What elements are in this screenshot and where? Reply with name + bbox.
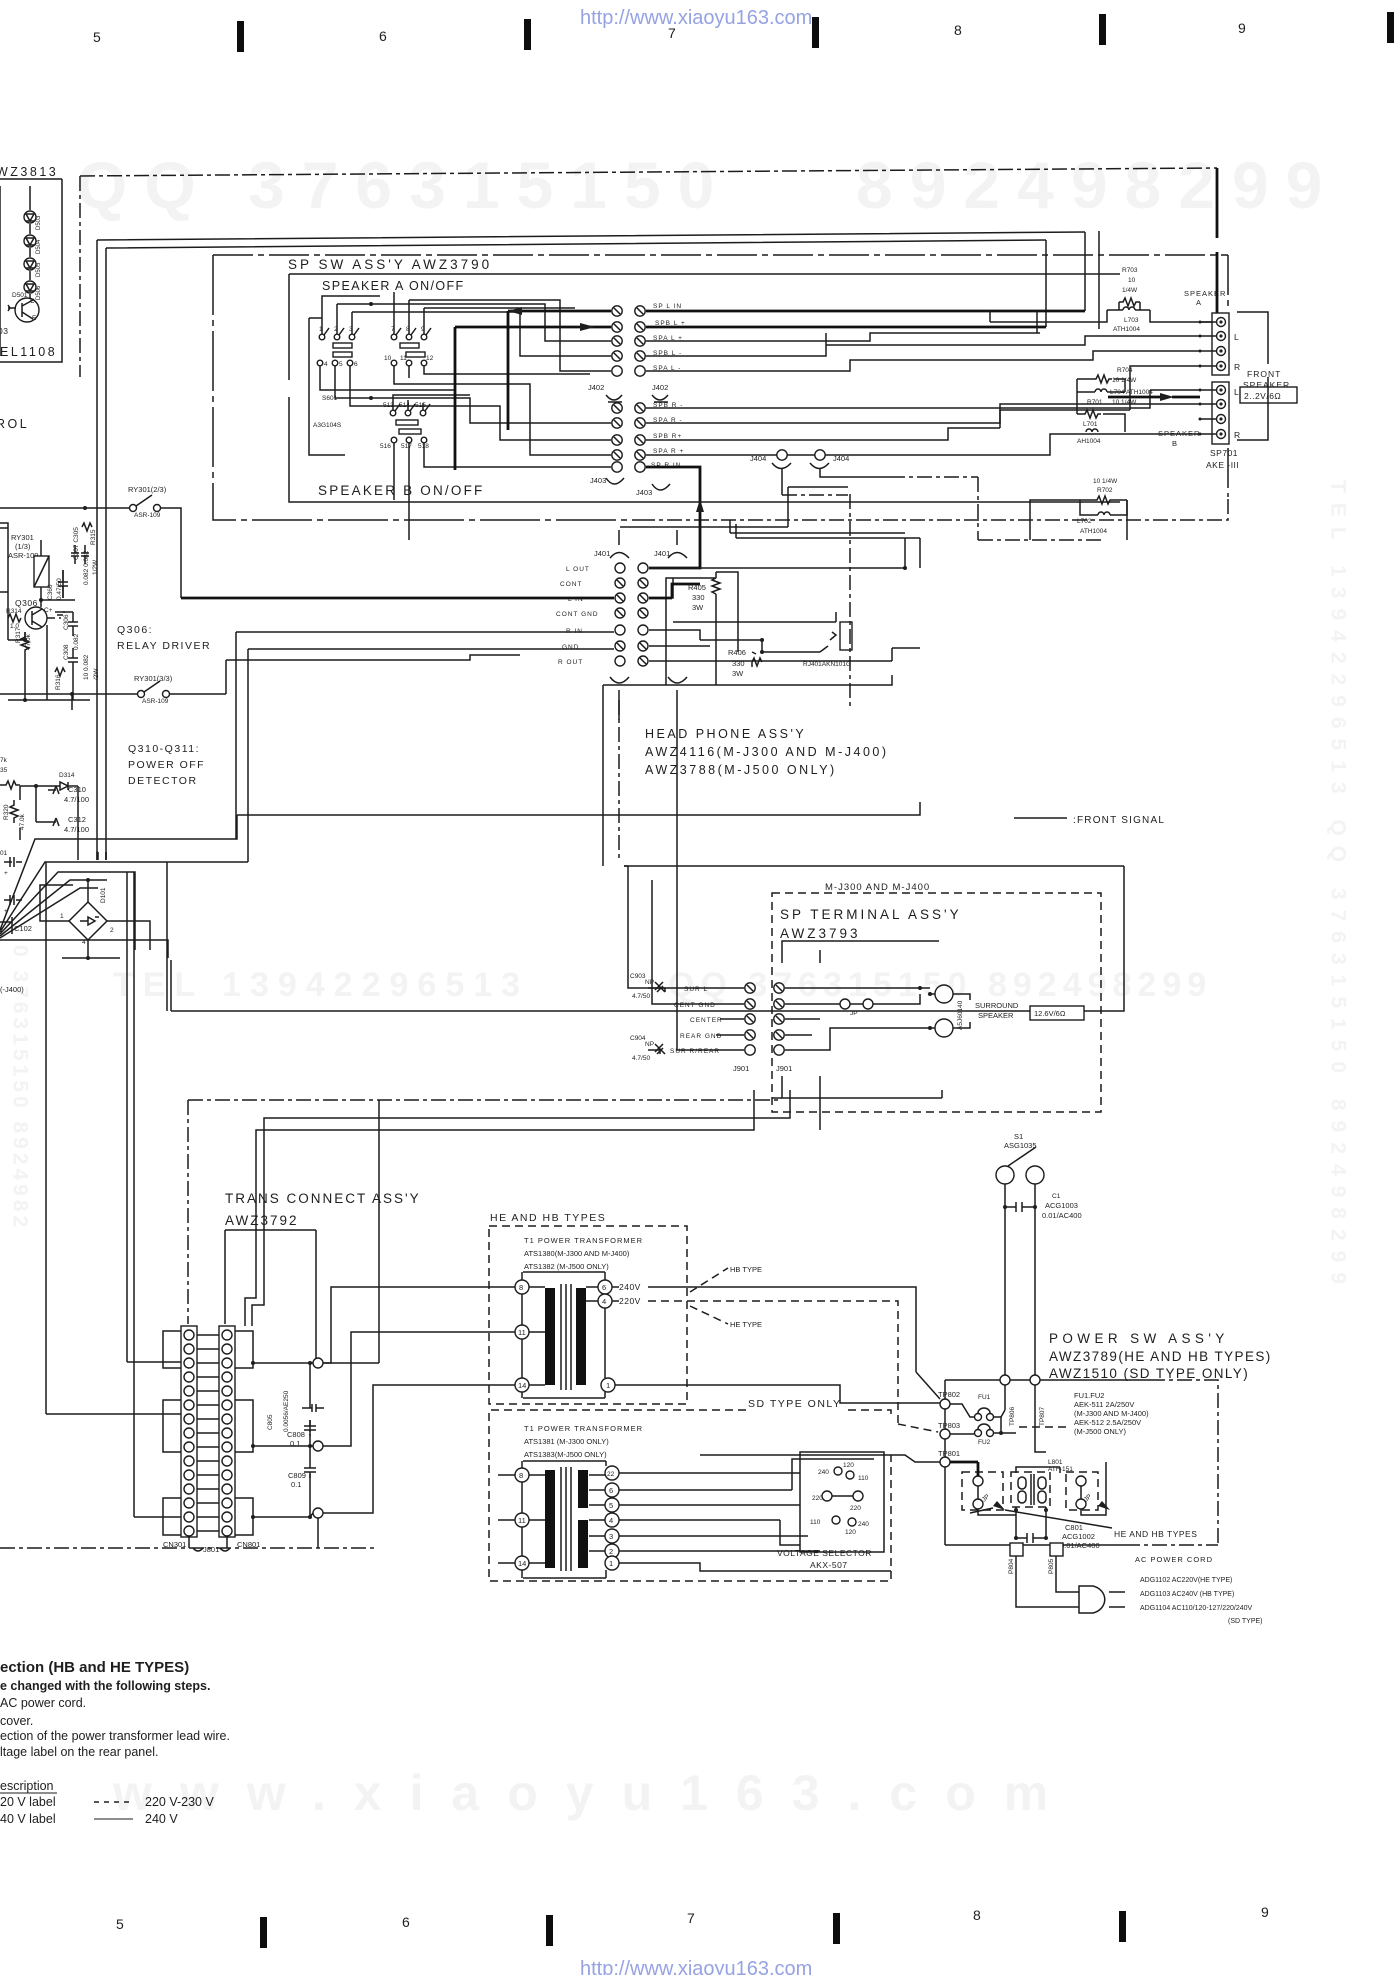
wire rail upper xyxy=(97,232,1085,860)
svg-text:http://www.xiaoyu163.com: http://www.xiaoyu163.com xyxy=(580,1958,812,1975)
svg-text:/2W: /2W xyxy=(93,668,100,680)
svg-text:1: 1 xyxy=(606,1381,610,1390)
svg-text:6: 6 xyxy=(402,1914,410,1930)
svg-text:330: 330 xyxy=(692,593,705,602)
svg-text:11: 11 xyxy=(518,1516,526,1525)
svg-text:AWZ1510 (SD TYPE ONLY): AWZ1510 (SD TYPE ONLY) xyxy=(1049,1366,1249,1381)
AC POWER CORD labels xyxy=(1135,1555,1263,1625)
wire speaker A terminal feed xyxy=(1216,168,1219,313)
svg-text:892498299: 892498299 xyxy=(856,148,1339,222)
svg-text:AWZ3788(M-J500 ONLY): AWZ3788(M-J500 ONLY) xyxy=(645,763,837,777)
svg-text:RY301(3/3): RY301(3/3) xyxy=(134,674,173,683)
LED D504 xyxy=(24,235,36,247)
arrows on JP path xyxy=(993,1501,1005,1510)
svg-text:R IN: R IN xyxy=(566,628,583,635)
svg-text:A3G104S: A3G104S xyxy=(313,422,342,429)
wire SPA R - xyxy=(646,410,1130,423)
svg-text:T1 POWER TRANSFORMER: T1 POWER TRANSFORMER xyxy=(524,1424,643,1433)
assembly bracket lines xyxy=(225,1230,316,1360)
svg-text:S1: S1 xyxy=(1014,1132,1023,1141)
wire LED chain xyxy=(29,186,31,299)
svg-text:ATS1382 (M-J500 ONLY): ATS1382 (M-J500 ONLY) xyxy=(524,1262,609,1271)
svg-text:C+: C+ xyxy=(44,607,53,614)
transistor Q306 xyxy=(6,598,65,630)
wire J403 side run xyxy=(620,487,848,527)
display board outline box xyxy=(0,179,62,362)
svg-text:Q310-Q311:: Q310-Q311: xyxy=(128,743,200,755)
capacitor C808 xyxy=(287,1420,316,1448)
svg-text:ATH1004: ATH1004 xyxy=(1113,326,1140,333)
svg-text:TEL 13942296513: TEL 13942296513 xyxy=(113,966,529,1004)
svg-text:VOLTAGE SELECTOR: VOLTAGE SELECTOR xyxy=(777,1548,872,1558)
row SPA R + xyxy=(612,450,622,460)
svg-text:AKX-507: AKX-507 xyxy=(810,1560,848,1570)
svg-text:CENTER: CENTER xyxy=(690,1017,723,1024)
svg-text:3: 3 xyxy=(609,1532,613,1541)
svg-text:6: 6 xyxy=(602,1283,606,1292)
front speaker bracket xyxy=(1237,312,1268,440)
svg-text:ATS1380(M-J300 AND M-J400): ATS1380(M-J300 AND M-J400) xyxy=(524,1249,630,1258)
svg-text:R320: R320 xyxy=(3,804,10,820)
svg-text:(1/3): (1/3) xyxy=(15,542,31,551)
page tick marks bottom xyxy=(260,1911,1126,1948)
capacitors C305 C307 R315 cluster xyxy=(71,523,99,585)
svg-text:4.7/50: 4.7/50 xyxy=(632,1055,650,1062)
svg-text:4: 4 xyxy=(602,1297,606,1306)
resistor R701 xyxy=(1082,399,1137,418)
resistor R405 xyxy=(688,572,720,685)
svg-text:ROL: ROL xyxy=(0,417,29,431)
svg-text:C102: C102 xyxy=(14,924,32,933)
svg-text:D501: D501 xyxy=(12,292,28,299)
svg-text:ection of the power transforme: ection of the power transformer lead wir… xyxy=(0,1729,230,1743)
terminal board outline xyxy=(782,941,942,1098)
svg-text:CENT GND: CENT GND xyxy=(674,1002,716,1009)
selector contacts xyxy=(810,1462,869,1536)
wire T1 pin1 to power box xyxy=(615,1385,940,1403)
capacitor C809 xyxy=(288,1462,316,1489)
svg-text:C312: C312 xyxy=(68,815,86,824)
svg-text:2: 2 xyxy=(609,1547,613,1556)
capacitor C102 xyxy=(0,895,32,934)
svg-text:C903: C903 xyxy=(630,973,646,980)
connector CN801 column xyxy=(219,1326,235,1537)
jumper JP xyxy=(785,999,890,1017)
svg-text:220: 220 xyxy=(812,1495,823,1502)
svg-text:SPEAKER: SPEAKER xyxy=(978,1011,1014,1020)
svg-text::FRONT SIGNAL: :FRONT SIGNAL xyxy=(1073,815,1165,826)
svg-text:E: E xyxy=(32,315,37,322)
resistor R316 xyxy=(55,654,100,690)
svg-text:0.47/50: 0.47/50 xyxy=(56,578,63,600)
svg-text:7: 7 xyxy=(668,25,676,41)
svg-text:TEL 13942296513 QQ 376315150 8: TEL 13942296513 QQ 376315150 892498299 xyxy=(1327,480,1350,1294)
resistor R320 cluster left edge xyxy=(0,757,26,830)
bottom bus dash-dot xyxy=(0,1547,375,1549)
svg-text:R702: R702 xyxy=(1097,487,1113,494)
svg-text:3W: 3W xyxy=(732,669,744,678)
terminal B lead dots xyxy=(1200,390,1216,434)
svg-text:0.01/AC400: 0.01/AC400 xyxy=(1060,1541,1100,1550)
voltage selector wires xyxy=(619,1473,891,1571)
row SPB L - xyxy=(612,351,622,361)
wire rail lower xyxy=(106,240,1046,860)
svg-text:C801: C801 xyxy=(1065,1523,1083,1532)
svg-text:+: + xyxy=(4,870,8,877)
svg-text:SPA R +: SPA R + xyxy=(653,448,684,455)
svg-text:SPEAKER B ON/OFF: SPEAKER B ON/OFF xyxy=(318,483,484,498)
svg-text:3W: 3W xyxy=(692,603,704,612)
svg-text:POWER SW ASS'Y: POWER SW ASS'Y xyxy=(1049,1331,1229,1346)
wire SPA L + xyxy=(646,333,1040,341)
svg-text:P805: P805 xyxy=(1048,1558,1055,1574)
svg-text:CONT GND: CONT GND xyxy=(556,611,599,618)
inductor L702 xyxy=(1077,512,1110,535)
svg-text:2: 2 xyxy=(110,927,114,934)
row SPB L + xyxy=(612,322,622,332)
capacitor C904 xyxy=(630,1035,665,1062)
surround terminal posts xyxy=(928,985,964,1037)
bridge wiring xyxy=(0,880,168,958)
connector J402 symbols xyxy=(606,395,668,402)
LED reference labels xyxy=(36,215,42,300)
svg-text:SP L IN: SP L IN xyxy=(653,303,682,310)
svg-text:FU1.FU2: FU1.FU2 xyxy=(1074,1391,1104,1400)
wire to RY301(2/3) xyxy=(0,508,181,598)
svg-text:FU1: FU1 xyxy=(978,1394,991,1401)
T1 secondary pins xyxy=(598,1280,612,1294)
relay contact RY301(2/3) xyxy=(128,485,167,519)
svg-text:R314: R314 xyxy=(6,608,22,615)
wire SPA R + xyxy=(646,448,1050,455)
fan of wires to lower left xyxy=(0,815,237,950)
resistor R317 xyxy=(15,627,32,655)
capacitor C101 left xyxy=(0,850,22,877)
relay contact RY301(3/3) xyxy=(134,674,173,705)
svg-text:8: 8 xyxy=(519,1283,523,1292)
fuse wiring xyxy=(950,1404,1016,1434)
svg-text:SP SW ASS'Y AWZ3790: SP SW ASS'Y AWZ3790 xyxy=(288,257,492,272)
svg-text:POWER OFF: POWER OFF xyxy=(128,759,205,771)
svg-text:20 V label: 20 V label xyxy=(0,1795,56,1809)
svg-text:11: 11 xyxy=(518,1328,526,1337)
watermark TEL row middle xyxy=(113,966,1212,1004)
svg-text:RY301(2/3): RY301(2/3) xyxy=(128,485,167,494)
inductor L701 xyxy=(1077,421,1101,445)
svg-text:HE AND HB TYPES: HE AND HB TYPES xyxy=(1114,1529,1197,1539)
JP jumper left dashed xyxy=(962,1472,1003,1510)
svg-text:120: 120 xyxy=(843,1462,854,1469)
terminal strip SP701 upper xyxy=(1212,313,1241,375)
svg-text:35: 35 xyxy=(0,767,8,774)
page numbers bottom xyxy=(116,1904,1269,1932)
JP jumper right dashed xyxy=(1066,1472,1098,1510)
svg-text:C904: C904 xyxy=(630,1035,646,1042)
svg-text:5: 5 xyxy=(609,1501,613,1510)
svg-text:RY301: RY301 xyxy=(11,533,34,542)
svg-text:C360: C360 xyxy=(47,584,54,600)
svg-text:AWZ3792: AWZ3792 xyxy=(225,1213,299,1228)
headphone internal wires xyxy=(673,622,920,661)
svg-text:A5J60140: A5J60140 xyxy=(957,1000,964,1030)
dashed box HE/HB xyxy=(489,1226,687,1404)
svg-text:12.6V/6Ω: 12.6V/6Ω xyxy=(1034,1009,1066,1018)
svg-text:NP: NP xyxy=(645,1041,654,1048)
svg-text:0.01/AC400: 0.01/AC400 xyxy=(1042,1211,1082,1220)
SP SW inner board box xyxy=(289,274,1120,502)
svg-text:HEAD PHONE ASS'Y: HEAD PHONE ASS'Y xyxy=(645,727,806,741)
svg-text:L IN: L IN xyxy=(568,596,584,603)
svg-text:R: R xyxy=(1234,430,1241,440)
R702/L702 wiring xyxy=(1080,500,1127,515)
transformer SD frame xyxy=(522,1461,606,1578)
svg-text:14: 14 xyxy=(518,1559,526,1568)
wires from headphone area down to SP terminal xyxy=(603,720,744,1050)
svg-text:SP TERMINAL ASS'Y: SP TERMINAL ASS'Y xyxy=(780,907,962,922)
svg-text:D314: D314 xyxy=(59,772,75,779)
svg-text:C808: C808 xyxy=(287,1430,305,1439)
svg-text:6: 6 xyxy=(379,28,387,44)
svg-text:CONT: CONT xyxy=(560,581,582,588)
svg-text:escription: escription xyxy=(0,1779,54,1793)
wire SPB L + heavy arrow xyxy=(455,327,1046,470)
svg-text:AWZ4116(M-J300 AND M-J400): AWZ4116(M-J300 AND M-J400) xyxy=(645,745,889,759)
svg-text:240: 240 xyxy=(818,1469,829,1476)
wire speaker A feed xyxy=(1046,231,1099,329)
page tick marks top xyxy=(237,12,1394,52)
connector J404 inline circles xyxy=(777,450,787,460)
svg-text:110: 110 xyxy=(858,1475,869,1482)
svg-text:cover.: cover. xyxy=(0,1714,33,1728)
P804 plug square xyxy=(1010,1543,1023,1556)
svg-text:Q306:: Q306: xyxy=(117,624,153,636)
svg-text:1/2W: 1/2W xyxy=(92,559,99,575)
wire from speaker B return xyxy=(1030,500,1127,540)
wire long from bridge to SP terminal xyxy=(171,866,1124,1011)
svg-text:R316: R316 xyxy=(55,674,62,690)
svg-text:ADG1102 AC220V(HE TYPE): ADG1102 AC220V(HE TYPE) xyxy=(1140,1577,1232,1584)
svg-text:1: 1 xyxy=(60,913,64,920)
connector group brackets xyxy=(163,1331,253,1535)
svg-text:FU2: FU2 xyxy=(978,1439,991,1446)
transformer T1 frame xyxy=(522,1272,605,1398)
svg-text:110: 110 xyxy=(810,1519,821,1526)
svg-text:DETECTOR: DETECTOR xyxy=(128,775,198,787)
svg-text:JP: JP xyxy=(850,1010,858,1017)
svg-text:516: 516 xyxy=(380,443,391,450)
svg-text:4.7/50: 4.7/50 xyxy=(632,993,650,1000)
svg-text:D503: D503 xyxy=(36,215,42,230)
connector J404 symbols xyxy=(772,463,829,469)
svg-text:ltage label on the rear panel.: ltage label on the rear panel. xyxy=(0,1745,158,1759)
capacitor C801 xyxy=(1016,1533,1046,1543)
dashed box SD xyxy=(489,1410,891,1581)
svg-text:FRONT: FRONT xyxy=(1247,369,1281,379)
svg-text:J401: J401 xyxy=(594,549,610,558)
wires speaker A terminals xyxy=(990,311,1200,410)
LED D503 xyxy=(24,211,36,223)
svg-text:TRANS CONNECT ASS'Y: TRANS CONNECT ASS'Y xyxy=(225,1191,421,1206)
row SPB R + xyxy=(612,435,622,445)
svg-text:240 V: 240 V xyxy=(145,1812,178,1826)
svg-text:22: 22 xyxy=(607,1471,615,1478)
svg-text:SPEAKER: SPEAKER xyxy=(1184,289,1226,298)
speaker A switch contacts 7-12 xyxy=(384,326,434,366)
terminal row labels xyxy=(670,986,723,1055)
dash-dot bus from display board xyxy=(80,168,1217,176)
connector J403 symbols xyxy=(606,478,670,490)
svg-text:14: 14 xyxy=(518,1381,526,1390)
svg-text:(SD TYPE): (SD TYPE) xyxy=(1228,1618,1263,1625)
svg-text:10 1/4W: 10 1/4W xyxy=(1112,399,1137,406)
L801 dashed core box xyxy=(1011,1472,1050,1507)
impedance box 12.6V/6ohm xyxy=(1030,1006,1084,1020)
legend FRONT SIGNAL xyxy=(1014,817,1067,819)
svg-text:(M-J300 AND M-J400): (M-J300 AND M-J400) xyxy=(1074,1409,1149,1418)
surround bracket xyxy=(953,994,970,1028)
wires into TP801 xyxy=(700,1455,940,1462)
svg-text:AKE -III: AKE -III xyxy=(1206,460,1239,470)
LED D506 xyxy=(24,281,36,293)
svg-text:QQ 376315150: QQ 376315150 xyxy=(76,148,731,222)
svg-text:HE AND HB TYPES: HE AND HB TYPES xyxy=(490,1212,606,1224)
resistor R702 xyxy=(1093,478,1118,504)
wire SP R IN heavy front signal xyxy=(646,467,700,568)
svg-text:R: R xyxy=(1234,362,1241,372)
svg-text:5: 5 xyxy=(93,29,101,45)
svg-text:AEK-511 2A/250V: AEK-511 2A/250V xyxy=(1074,1400,1134,1409)
svg-text:AC power cord.: AC power cord. xyxy=(0,1696,86,1710)
svg-text:R703: R703 xyxy=(1122,267,1138,274)
svg-text:J402: J402 xyxy=(652,383,668,392)
wire 220V dashed xyxy=(612,1301,938,1432)
terminal strip SP701 lower xyxy=(1212,382,1241,444)
watermark QQ row top xyxy=(76,148,1339,222)
svg-text:L OUT: L OUT xyxy=(566,566,590,573)
svg-text:J403: J403 xyxy=(636,488,652,497)
svg-text:D506: D506 xyxy=(36,285,42,300)
wires L OUT / L IN xyxy=(649,538,905,652)
svg-text:AEK-512 2.5A/250V: AEK-512 2.5A/250V xyxy=(1074,1418,1141,1427)
svg-text:ATS1381 (M-J300 ONLY): ATS1381 (M-J300 ONLY) xyxy=(524,1437,609,1446)
svg-text:120: 120 xyxy=(845,1529,856,1536)
wires Q306 cluster xyxy=(8,570,90,700)
wire 240V solid xyxy=(612,1287,940,1399)
board bottom dash bus xyxy=(188,1099,782,1101)
transistor D501 driver xyxy=(15,298,39,322)
svg-text:9: 9 xyxy=(1238,20,1246,36)
svg-text:J402: J402 xyxy=(588,383,604,392)
capacitor C312 xyxy=(48,815,89,834)
svg-text:http://www.xiaoyu163.com: http://www.xiaoyu163.com xyxy=(580,7,812,29)
wire SPB R - xyxy=(646,390,1150,408)
svg-text:M-J300 AND M-J400: M-J300 AND M-J400 xyxy=(825,882,930,893)
svg-text:L: L xyxy=(1234,387,1239,397)
voltage selector box xyxy=(800,1452,884,1552)
svg-text:L801: L801 xyxy=(1048,1459,1063,1466)
svg-text:01: 01 xyxy=(0,850,8,857)
svg-text:L703: L703 xyxy=(1124,317,1139,324)
svg-text:8: 8 xyxy=(954,22,962,38)
svg-text:GND: GND xyxy=(562,644,579,651)
svg-text:(-J400): (-J400) xyxy=(0,985,24,994)
wire dash-dot drop from J401 xyxy=(618,700,620,862)
impedance box 2..2V/6ohm xyxy=(1240,387,1297,403)
svg-text:7k: 7k xyxy=(0,757,8,764)
diode D314 xyxy=(50,772,78,790)
resistor R704 xyxy=(1093,367,1137,384)
svg-text:C: C xyxy=(30,298,35,305)
svg-text:RJ401AKN101G: RJ401AKN101G xyxy=(803,661,851,668)
svg-text:T1 POWER TRANSFORMER: T1 POWER TRANSFORMER xyxy=(524,1236,643,1245)
wires into connector left xyxy=(46,852,181,1517)
page numbers top xyxy=(93,20,1246,45)
svg-text:D504: D504 xyxy=(36,239,42,254)
svg-text:J401: J401 xyxy=(654,549,670,558)
svg-text:ATS1383(M-J500 ONLY): ATS1383(M-J500 ONLY) xyxy=(524,1450,607,1459)
row SP R IN xyxy=(612,462,622,472)
svg-text:RELAY DRIVER: RELAY DRIVER xyxy=(117,640,211,652)
svg-text:ection (HB and HE TYPES): ection (HB and HE TYPES) xyxy=(0,1659,189,1676)
R704/L704 connection box xyxy=(1077,379,1125,432)
capacitor C310 xyxy=(48,785,89,804)
svg-text:AC POWER CORD: AC POWER CORD xyxy=(1135,1555,1213,1564)
headphone dashed board edge xyxy=(849,494,851,706)
svg-text:517: 517 xyxy=(401,443,412,450)
terminal block J402 circles column xyxy=(612,306,645,472)
svg-text:B: B xyxy=(1172,439,1177,448)
svg-text:L701: L701 xyxy=(1083,421,1098,428)
wire J404 drops to speaker B return xyxy=(782,468,890,495)
power path wiring xyxy=(950,1462,978,1476)
svg-text:REAR GND: REAR GND xyxy=(680,1033,722,1040)
wire return pair above J401 xyxy=(730,520,920,568)
SD primary stubs xyxy=(498,1475,515,1563)
svg-text:4.7/100: 4.7/100 xyxy=(64,825,89,834)
wire R IN long xyxy=(236,632,614,839)
svg-text:11: 11 xyxy=(400,355,407,362)
svg-text:7: 7 xyxy=(687,1910,695,1926)
speaker A switch internal wiring xyxy=(322,292,424,334)
svg-text:HB TYPE: HB TYPE xyxy=(730,1265,762,1274)
fuse FU2 xyxy=(975,1430,982,1437)
svg-text:A: A xyxy=(1196,298,1201,307)
wire heavy front signal L IN xyxy=(181,597,614,600)
dashed model box xyxy=(772,893,1101,1112)
wire SP L IN heavy xyxy=(508,311,1085,430)
svg-text:J901: J901 xyxy=(733,1064,749,1073)
svg-text:C310: C310 xyxy=(68,785,86,794)
capacitor C360 xyxy=(47,570,68,600)
svg-text:TP802: TP802 xyxy=(938,1390,960,1399)
bridge rectifier D101 xyxy=(60,887,114,946)
svg-text:6: 6 xyxy=(609,1486,613,1495)
power sw board box xyxy=(945,1380,1150,1545)
svg-text:9: 9 xyxy=(1261,1904,1269,1920)
T1 primary pins xyxy=(515,1280,529,1294)
svg-text:0.1: 0.1 xyxy=(291,1480,301,1489)
speaker A switch S601 contacts 1-6 xyxy=(317,326,359,368)
svg-text:330: 330 xyxy=(732,659,745,668)
svg-text:L702: L702 xyxy=(1077,518,1092,525)
wires out of board bottom xyxy=(245,1090,942,1326)
row SPA L + xyxy=(612,336,622,346)
svg-text:TP806: TP806 xyxy=(1009,1406,1016,1426)
J401 lower symbols xyxy=(610,677,687,720)
svg-text:03: 03 xyxy=(0,326,8,336)
headphone jack RJ401 xyxy=(803,612,852,668)
wire into L703 node xyxy=(990,310,1215,322)
